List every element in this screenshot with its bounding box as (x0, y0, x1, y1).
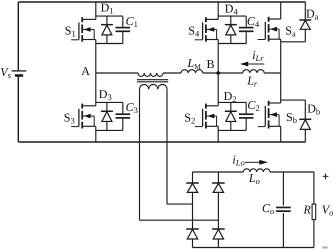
svg-text:Sa: Sa (285, 24, 296, 39)
svg-text:D4: D4 (225, 2, 239, 17)
svg-text:D2: D2 (224, 89, 237, 104)
svg-text:S1: S1 (65, 24, 76, 39)
svg-text:B: B (207, 57, 215, 71)
svg-text:S2: S2 (184, 110, 195, 125)
svg-text:Da: Da (306, 6, 319, 21)
svg-text:Lr: Lr (246, 73, 258, 88)
svg-text:C4: C4 (247, 14, 260, 29)
svg-text:D3: D3 (99, 87, 112, 102)
svg-text:S4: S4 (188, 24, 200, 39)
svg-text:S3: S3 (64, 110, 75, 125)
svg-text:C2: C2 (247, 98, 259, 113)
svg-text:Lo: Lo (248, 171, 260, 186)
svg-text:Vs: Vs (0, 65, 11, 80)
svg-text:Sb: Sb (286, 110, 297, 125)
svg-text:Vo: Vo (322, 203, 333, 218)
svg-text:C1: C1 (126, 14, 138, 29)
svg-text:Db: Db (307, 102, 320, 117)
svg-text:C3: C3 (126, 100, 138, 115)
svg-text:Co: Co (262, 201, 274, 216)
svg-text:D1: D1 (101, 1, 114, 16)
svg-text:R: R (303, 203, 312, 217)
svg-text:A: A (81, 64, 90, 78)
svg-text:iLr: iLr (252, 48, 264, 63)
svg-text:LM: LM (187, 56, 202, 71)
svg-text:iLo: iLo (232, 152, 244, 167)
